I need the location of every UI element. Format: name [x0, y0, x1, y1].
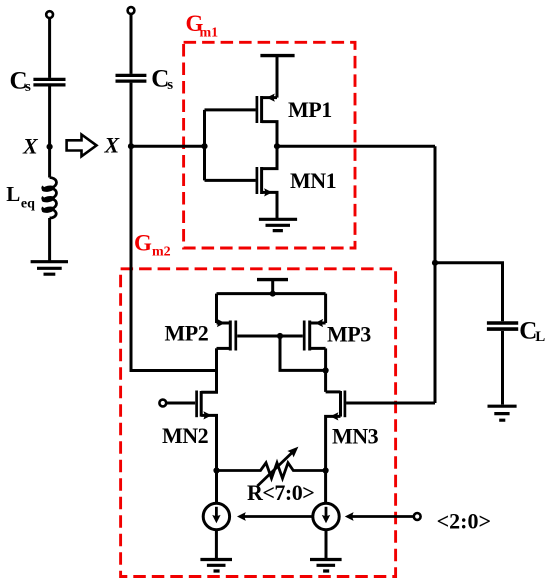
ground (left branch): [31, 262, 68, 275]
wire supply to MP1 source: [276, 56, 279, 98]
svg-text:m2: m2: [152, 244, 171, 259]
svg-text:MN2: MN2: [162, 423, 209, 448]
svg-text:MP2: MP2: [165, 321, 209, 346]
wire output down right side: [434, 146, 437, 403]
wire supply rail Gm2: [217, 292, 326, 295]
resistor R<7:0>: [217, 463, 326, 479]
svg-text:MP1: MP1: [288, 97, 332, 122]
transistor MP1: [256, 96, 259, 123]
svg-text:eq: eq: [21, 197, 35, 212]
wire MP3 drain to MN3 drain: [324, 348, 327, 392]
inductor Leq: [43, 178, 57, 190]
svg-text:L: L: [6, 182, 20, 206]
wire supply stem Gm2: [271, 280, 274, 294]
capacitor CL: [487, 323, 518, 329]
wire gate lead MN1: [205, 179, 256, 182]
node resistor left dot: [213, 467, 219, 473]
wire MP2 source: [215, 294, 218, 323]
node supply rail dot: [270, 291, 276, 297]
current source I1: [203, 503, 229, 529]
wire T2 to Cs: [130, 14, 133, 74]
current source I2: [313, 503, 339, 529]
svg-text:<2:0>: <2:0>: [437, 509, 491, 534]
wire to CL: [435, 263, 503, 321]
terminal T2 (main branch top): [128, 7, 135, 14]
node X (left branch dot): [47, 144, 53, 150]
svg-text:R<7:0>: R<7:0>: [247, 480, 314, 505]
svg-text:MN3: MN3: [332, 424, 379, 449]
arrow (variable resistor): [257, 451, 293, 486]
wire Cs to node X to Gm2: [131, 83, 217, 371]
wire T3 to MN2 gate: [166, 402, 195, 405]
ground (under MN1): [259, 219, 297, 230]
wire mirror gates to MP3 drain: [280, 336, 326, 370]
svg-text:s: s: [25, 79, 31, 95]
wire CL to ground: [501, 331, 504, 405]
terminal T4 (<2:0> input): [414, 513, 421, 520]
wire feedback to MN3 gate: [346, 402, 435, 405]
wire MP2 gate to MP3 gate: [237, 335, 303, 338]
terminal T1 (left branch top): [46, 11, 53, 18]
arrow I2 to I1 control: [245, 515, 313, 518]
transistor MP2: [234, 321, 237, 351]
wire Cs to node X left: [48, 86, 51, 177]
node CL tap dot: [432, 260, 438, 266]
wire right source node to current source: [324, 471, 327, 504]
node MP3 drain dot: [323, 367, 329, 373]
node resistor right dot: [323, 467, 329, 473]
ground (under CL): [488, 406, 517, 420]
svg-text:MP3: MP3: [327, 322, 371, 347]
wire I1 to ground: [215, 530, 218, 560]
transistor MP3: [303, 321, 306, 351]
box Gm1 (red dashed): [184, 42, 355, 248]
svg-text:X: X: [22, 133, 39, 158]
box Gm2 (red dashed): [121, 269, 396, 577]
wire left source node to current source: [215, 471, 218, 504]
wire MP3 source: [324, 294, 327, 323]
wire MP2 drain down to MN2 drain: [215, 348, 218, 392]
terminal T3 (MN2 gate): [159, 400, 166, 407]
wire Leq to ground: [48, 218, 51, 262]
svg-text:MN1: MN1: [290, 168, 336, 193]
wire inverter output to right rail: [277, 145, 435, 148]
wire T1 to Cs left: [48, 18, 51, 78]
wire I2 to ground: [325, 530, 328, 560]
node inverter output dot: [274, 143, 280, 149]
transistor MN1: [256, 167, 259, 194]
svg-text:s: s: [167, 77, 173, 93]
svg-text:X: X: [104, 133, 121, 158]
wire gate lead MP1: [205, 108, 256, 111]
svg-text:L: L: [535, 329, 545, 345]
supply bar Gm1: [260, 54, 294, 57]
ground (under I2): [310, 560, 342, 572]
node gate junction dot: [201, 143, 207, 149]
capacitor Cs (main branch): [116, 75, 147, 81]
wire gate vertical Gm1: [203, 110, 206, 180]
block arrow (equivalence): [67, 135, 97, 157]
capacitor Cs (left branch): [33, 79, 65, 85]
ground (under I1): [200, 560, 232, 572]
svg-text:G: G: [134, 231, 152, 256]
svg-text:m1: m1: [200, 26, 219, 41]
wire node X to inverter gates: [131, 145, 205, 148]
node X (main dot): [128, 143, 134, 149]
arrow T4 to I2 control: [353, 515, 414, 518]
transistor MN2: [195, 391, 198, 418]
wire MN3 gate lead: [346, 402, 360, 405]
node mirror gates dot: [277, 333, 283, 339]
transistor MN3: [344, 391, 347, 418]
supply bar Gm2: [257, 278, 288, 281]
